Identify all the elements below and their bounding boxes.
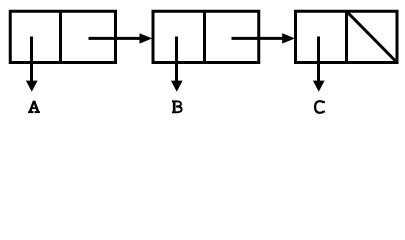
- label C: [315, 101, 324, 113]
- node 2 data pointer arrow to B: [171, 37, 183, 92]
- node 3 box: [296, 11, 398, 62]
- node 1 box: [10, 11, 115, 62]
- node 1 next pointer arrowhead: [140, 33, 153, 43]
- node 3 data pointer arrow to C: [313, 37, 325, 92]
- node 1 next pointer wire: [89, 37, 142, 40]
- node 1 data pointer arrow to A: [26, 37, 38, 92]
- label A: [28, 101, 40, 113]
- label B: [172, 101, 182, 112]
- node 2 next pointer arrowhead: [282, 33, 295, 43]
- node 2 next pointer wire: [232, 37, 284, 40]
- node 2 box: [153, 11, 259, 62]
- node 3 divider: [345, 11, 348, 64]
- node 2 divider: [203, 11, 206, 64]
- node 1 divider: [59, 11, 62, 64]
- node 3 NULL diagonal: [348, 12, 397, 61]
